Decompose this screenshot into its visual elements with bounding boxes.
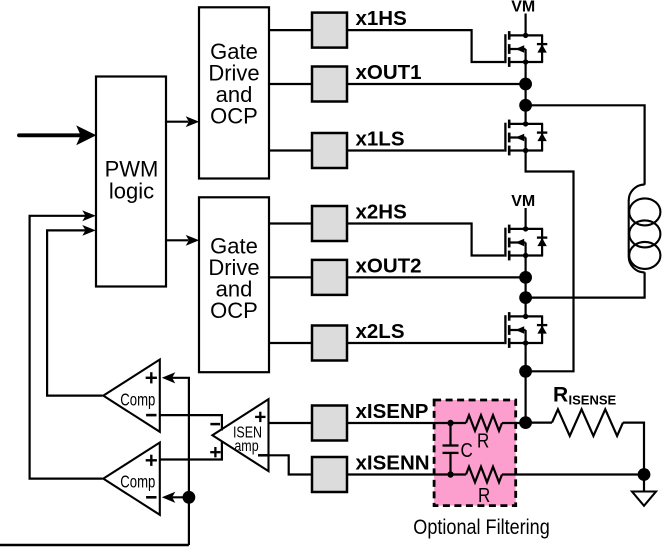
resistor RISENSE	[552, 409, 623, 436]
wire ISEN amp positive input to xISENP pin	[269, 422, 313, 424]
svg-text:R: R	[553, 383, 568, 406]
block Gate Drive and OCP (bottom)	[199, 197, 269, 372]
wire RISENSE to ground node	[623, 423, 644, 475]
svg-text:logic: logic	[109, 179, 154, 204]
svg-text:R: R	[478, 484, 490, 507]
svg-text:C: C	[461, 439, 473, 462]
ISEN amp output minus polarity mark	[210, 423, 220, 426]
svg-text:OCP: OCP	[210, 298, 258, 323]
wire PWM logic to Gate Drive 1 (arrow)	[166, 116, 199, 127]
feedback wire Comp2 output to PWM input (upper arrow)	[30, 210, 103, 478]
wire inductor bottom to half-bridge 2	[526, 272, 645, 297]
wire xOUT1 to half-bridge 1 node	[347, 83, 526, 85]
transistor x2LS (NMOS with body diode)	[505, 312, 547, 348]
svg-text:xISENN: xISENN	[356, 452, 430, 475]
wire filter resistor to sense node	[502, 422, 526, 424]
wire x2LS source down to current sense node	[524, 343, 526, 423]
resistor R (bottom filter)	[466, 467, 502, 483]
wire half-bridge 1 to inductor top	[526, 105, 645, 185]
wire Gate Drive to x2HS pin	[269, 222, 312, 224]
node junction to motor winding (bottom)	[519, 291, 532, 304]
wire x2LS gate routing	[347, 342, 504, 344]
svg-text:Comp: Comp	[120, 391, 155, 410]
svg-text:VM: VM	[511, 193, 535, 210]
pin square xISENP	[312, 406, 347, 441]
wire x1LS gate routing	[347, 149, 504, 151]
transistor x1HS (NMOS with body diode)	[505, 31, 547, 67]
pin square x2LS	[312, 326, 347, 361]
node xISENP filter junction	[447, 420, 453, 426]
wire x1HS gate routing	[347, 30, 504, 62]
svg-text:xISENP: xISENP	[356, 400, 429, 423]
wire x2HS source to x2LS drain (xOUT2 column)	[524, 256, 526, 317]
pin square x1HS	[312, 13, 347, 48]
wire current-sense feedback to comparator inputs	[162, 372, 189, 545]
svg-text:R: R	[477, 429, 489, 452]
wire Gate Drive to x2LS pin	[269, 342, 312, 344]
feedback wire Comp1 output to PWM input (lower arrow)	[47, 225, 102, 396]
wire x1HS source to x1LS drain (xOUT1 column)	[524, 62, 526, 124]
comparator Comp2 (lower)	[103, 443, 160, 515]
comparator Comp1 (upper)	[103, 360, 160, 432]
wire Gate Drive to x1LS pin	[269, 149, 312, 151]
svg-text:x2LS: x2LS	[356, 320, 405, 343]
svg-text:VM: VM	[511, 0, 535, 15]
wire x1LS source down to sense junction	[526, 151, 574, 372]
node LS sources junction	[519, 365, 532, 378]
svg-text:Comp: Comp	[120, 473, 155, 492]
node feedback junction at Comp2 input	[183, 491, 196, 504]
wire PWM logic to Gate Drive 2 (arrow)	[166, 235, 199, 246]
svg-text:Optional Filtering: Optional Filtering	[413, 516, 549, 540]
wire ISEN amp negative output to Comp1 inverting input	[160, 415, 222, 430]
pin square x1LS	[312, 133, 347, 168]
wire VM to x2HS drain	[524, 208, 526, 229]
resistor R (top filter)	[466, 415, 502, 431]
capacitor C (filter)	[443, 423, 459, 475]
svg-text:xOUT2: xOUT2	[356, 254, 422, 277]
pin square xOUT1	[312, 67, 347, 102]
op-amp ISEN amp (current sense amplifier)	[212, 399, 268, 471]
node junction to motor winding (top)	[519, 99, 532, 112]
wire Gate Drive to xOUT2 pin	[269, 276, 312, 278]
wire ISEN amp negative input to xISENN pin	[269, 455, 313, 474]
transistor x1LS (NMOS with body diode)	[505, 120, 547, 156]
wire bottom feedback bus	[0, 544, 189, 547]
label RISENSE	[553, 383, 617, 407]
wire Gate Drive to x1HS pin	[269, 29, 312, 31]
svg-text:x1HS: x1HS	[356, 7, 407, 30]
pin square xISENN	[312, 457, 347, 492]
wire sense node to RISENSE	[526, 422, 552, 424]
optional filtering highlighted region	[434, 400, 516, 506]
ISEN amp output plus polarity mark	[210, 447, 220, 457]
ground	[632, 475, 656, 506]
block PWM logic	[96, 77, 166, 287]
wire ISEN amp positive output to Comp2 non-inverting input	[160, 442, 222, 460]
svg-text:x1LS: x1LS	[356, 128, 405, 151]
node current sense (xISENP) junction	[519, 416, 532, 429]
wire Gate Drive to xOUT1 pin	[269, 83, 312, 85]
node ground junction	[638, 468, 651, 481]
wire bottom filter resistor to ground node	[502, 473, 644, 475]
wire VM to x1HS drain	[524, 14, 526, 36]
pin square xOUT2	[312, 260, 347, 295]
svg-text:OCP: OCP	[210, 103, 258, 128]
pin square x2HS	[312, 206, 347, 241]
wire xISENN line through filter to ground node	[347, 473, 466, 475]
wire xISENP line through filter to sense node	[347, 422, 466, 424]
wire x2HS gate routing	[347, 224, 504, 256]
svg-text:xOUT1: xOUT1	[356, 61, 422, 84]
node xISENN filter junction	[447, 471, 453, 477]
wire xOUT2 to half-bridge 2 node	[347, 276, 526, 278]
node xOUT1 junction	[519, 78, 532, 91]
inductor L (motor winding)	[629, 185, 661, 273]
thick input arrow into PWM logic	[19, 125, 96, 145]
block Gate Drive and OCP (top)	[199, 7, 269, 178]
transistor x2HS (NMOS with body diode)	[505, 225, 547, 261]
node xOUT2 junction	[519, 271, 532, 284]
svg-text:x2HS: x2HS	[356, 201, 407, 224]
svg-text:amp: amp	[234, 438, 258, 456]
svg-text:ISENSE: ISENSE	[569, 393, 617, 408]
